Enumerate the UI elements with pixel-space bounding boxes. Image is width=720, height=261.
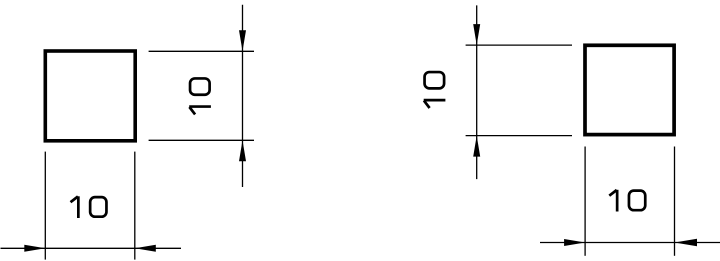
extension line (top, left side of right square) bbox=[466, 44, 572, 46]
arrowhead (down, at top extension line) bbox=[473, 24, 480, 45]
arrowhead (right-pointing, at left extension line) bbox=[564, 239, 585, 246]
square outline (right part) bbox=[585, 45, 674, 134]
dimension text 10 (horizontal, right figure) bbox=[609, 190, 645, 212]
extension line (bottom, left side of right square) bbox=[466, 135, 572, 137]
extension line (right, below right square) bbox=[674, 147, 676, 256]
extension line (left, below left square) bbox=[44, 152, 46, 260]
dimension text 10 (horizontal, left figure) bbox=[71, 196, 107, 218]
dimension line (horizontal, left figure) bbox=[1, 247, 182, 249]
arrowhead (left-pointing, at right extension line) bbox=[675, 239, 698, 246]
arrowhead (up, at bottom extension line) bbox=[239, 140, 246, 161]
dimension text 10 (vertical, right figure) bbox=[424, 72, 446, 108]
dimension text 10 (vertical, left figure) bbox=[189, 78, 211, 114]
dimension line (horizontal, right figure) bbox=[540, 242, 720, 244]
extension line (bottom, right side of left square) bbox=[149, 139, 254, 141]
extension line (left, below right square) bbox=[584, 147, 586, 256]
square outline (left part) bbox=[45, 51, 135, 141]
arrowhead (up, at bottom extension line) bbox=[473, 136, 480, 157]
dimension line (vertical, right figure) bbox=[476, 5, 478, 179]
extension line (top, right side of left square) bbox=[149, 50, 254, 52]
extension line (right, below left square) bbox=[134, 152, 136, 260]
arrowhead (down, at top extension line) bbox=[239, 30, 246, 51]
dimension line (vertical, left figure) bbox=[242, 5, 244, 187]
arrowhead (left-pointing, at right extension line) bbox=[135, 245, 156, 252]
arrowhead (right-pointing, at left extension line) bbox=[24, 245, 45, 252]
